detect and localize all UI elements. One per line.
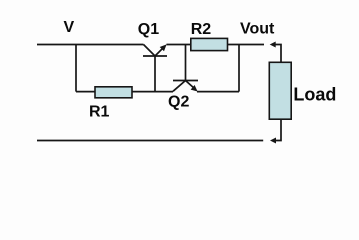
svg-text:Q2: Q2: [168, 94, 189, 111]
wire output riser (Vout rail down to Q2 emitter): [238, 45, 240, 92]
resistor R1: [95, 87, 132, 98]
svg-text:R2: R2: [191, 21, 212, 38]
wire bottom return rail: [37, 140, 263, 142]
svg-text:Q1: Q1: [138, 21, 159, 38]
wire V node drop (input to R1): [75, 45, 77, 92]
resistor R2: [191, 38, 228, 50]
wire Q2 emitter to output riser: [197, 91, 239, 93]
wire top rail right (Q1 emitter to R2 and Vout node): [167, 44, 265, 46]
wire load bottom to return rail: [276, 119, 281, 140]
wire top rail left (V input to Q1 collector): [37, 44, 144, 46]
wire middle (R1 to Q1 base and Q2 collector): [76, 91, 173, 93]
arrow current into load (top, pointing left): [270, 42, 276, 48]
load (resistive load box): [269, 62, 291, 119]
transistor Q1 (NPN pass transistor): [143, 44, 167, 91]
svg-text:Vout: Vout: [240, 21, 275, 38]
svg-text:R1: R1: [89, 104, 110, 121]
transistor Q2 (NPN current limit transistor): [173, 45, 198, 92]
wire Vout to load top: [276, 45, 282, 63]
arrow return current (bottom, pointing left): [270, 138, 276, 144]
svg-text:V: V: [64, 19, 75, 36]
svg-text:Load: Load: [293, 84, 336, 104]
